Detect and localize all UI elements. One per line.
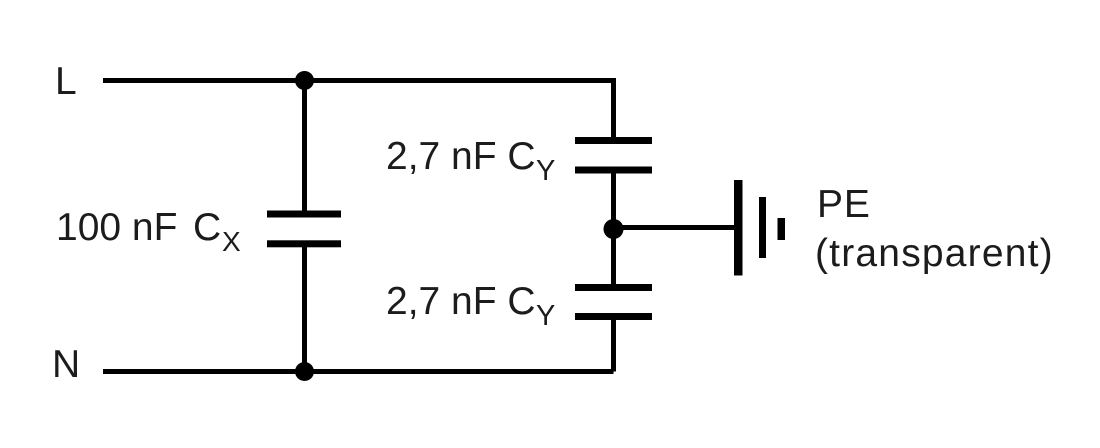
svg-text:Y: Y bbox=[536, 155, 555, 187]
junction dot L/CX bbox=[295, 71, 314, 90]
junction dot N/CX bbox=[295, 362, 314, 381]
svg-text:(transparent): (transparent) bbox=[815, 232, 1054, 275]
wire L (top horizontal) bbox=[103, 78, 614, 83]
svg-text:100 nF: 100 nF bbox=[56, 206, 177, 249]
capacitor CY1 (upper Y cap) bbox=[575, 137, 652, 174]
svg-text:2,7 nF C: 2,7 nF C bbox=[386, 280, 536, 323]
net label PE (transparent) bbox=[815, 183, 1054, 275]
wire CY1 to node PE bbox=[611, 173, 616, 229]
wire node PE to CY2 bbox=[611, 229, 616, 285]
capacitor CY2 (lower Y cap) bbox=[575, 284, 652, 320]
svg-text:2,7 nF C: 2,7 nF C bbox=[386, 135, 536, 178]
wire CX top lead bbox=[302, 81, 307, 212]
value label 2,7 nF CY (upper) bbox=[386, 135, 555, 187]
svg-text:X: X bbox=[222, 226, 241, 257]
node N label bbox=[52, 343, 80, 386]
svg-text:L: L bbox=[55, 60, 77, 103]
svg-text:N: N bbox=[52, 343, 80, 386]
earth (PE) symbol bbox=[734, 180, 785, 276]
value label 2,7 nF CY (lower) bbox=[386, 280, 555, 332]
svg-text:PE: PE bbox=[817, 183, 871, 226]
svg-text:Y: Y bbox=[536, 300, 555, 332]
capacitor CX bbox=[267, 211, 341, 248]
svg-text:C: C bbox=[193, 206, 221, 249]
wire CX bottom lead bbox=[302, 247, 307, 372]
value label 100 nF CX bbox=[56, 206, 241, 257]
junction dot node PE bbox=[604, 219, 624, 239]
wire CY1 top lead (right vertical from L) bbox=[611, 78, 616, 138]
wire CY2 bottom lead bbox=[611, 320, 616, 372]
wire N (bottom horizontal) bbox=[103, 369, 614, 374]
wire node PE to earth symbol bbox=[614, 225, 735, 230]
node L label bbox=[55, 60, 77, 103]
